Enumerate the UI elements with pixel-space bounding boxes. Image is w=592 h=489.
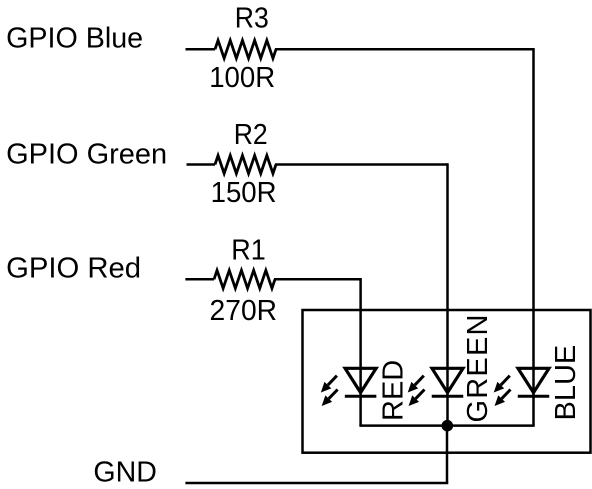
LED D1 red: cathode bar: [345, 395, 377, 398]
wire red left: [185, 278, 214, 281]
wire blue left: [186, 48, 216, 51]
resistor R1: [214, 270, 275, 288]
svg-text:R2: R2: [234, 119, 268, 151]
wire blue right: [275, 48, 534, 51]
LED D2 green: emission arrow 2: [409, 390, 425, 406]
wire red vertical: [359, 278, 362, 426]
LED D1 red: emission arrow 1: [321, 376, 337, 393]
svg-text:RED: RED: [378, 360, 410, 421]
LED D3 blue: emission arrow 1: [494, 376, 510, 393]
LED D2 green: cathode bar: [432, 395, 464, 398]
wire green right: [275, 163, 448, 166]
LED package box: [303, 310, 591, 453]
LED D2 green: triangle: [432, 368, 463, 392]
wire red right: [274, 278, 361, 281]
wire green left: [187, 163, 216, 166]
LED D3 blue: emission arrow 2: [495, 390, 511, 406]
svg-text:100R: 100R: [209, 62, 275, 94]
svg-text:150R: 150R: [211, 177, 277, 209]
junction dot: [442, 420, 454, 432]
svg-text:GPIO Blue: GPIO Blue: [6, 23, 143, 55]
svg-text:270R: 270R: [210, 295, 278, 327]
svg-text:BLUE: BLUE: [550, 345, 582, 421]
svg-text:GPIO Green: GPIO Green: [6, 139, 167, 171]
wire GND vertical: [446, 426, 449, 483]
LED D1 red: emission arrow 2: [322, 390, 338, 406]
wire green vertical: [446, 163, 449, 425]
svg-text:R3: R3: [235, 3, 269, 35]
LED D1 red: triangle: [345, 368, 376, 392]
wire blue vertical: [532, 48, 535, 426]
svg-text:GREEN: GREEN: [462, 313, 494, 422]
wire GND horizontal: [185, 482, 448, 485]
svg-text:GPIO Red: GPIO Red: [6, 253, 141, 285]
LED D3 blue: triangle: [518, 368, 549, 392]
svg-text:R1: R1: [231, 235, 266, 267]
svg-text:GND: GND: [93, 457, 156, 489]
LED D2 green: emission arrow 1: [408, 376, 424, 393]
wire cathode bus: [359, 424, 534, 427]
LED D3 blue: cathode bar: [518, 395, 550, 398]
resistor R3: [215, 40, 276, 58]
resistor R2: [215, 156, 276, 174]
